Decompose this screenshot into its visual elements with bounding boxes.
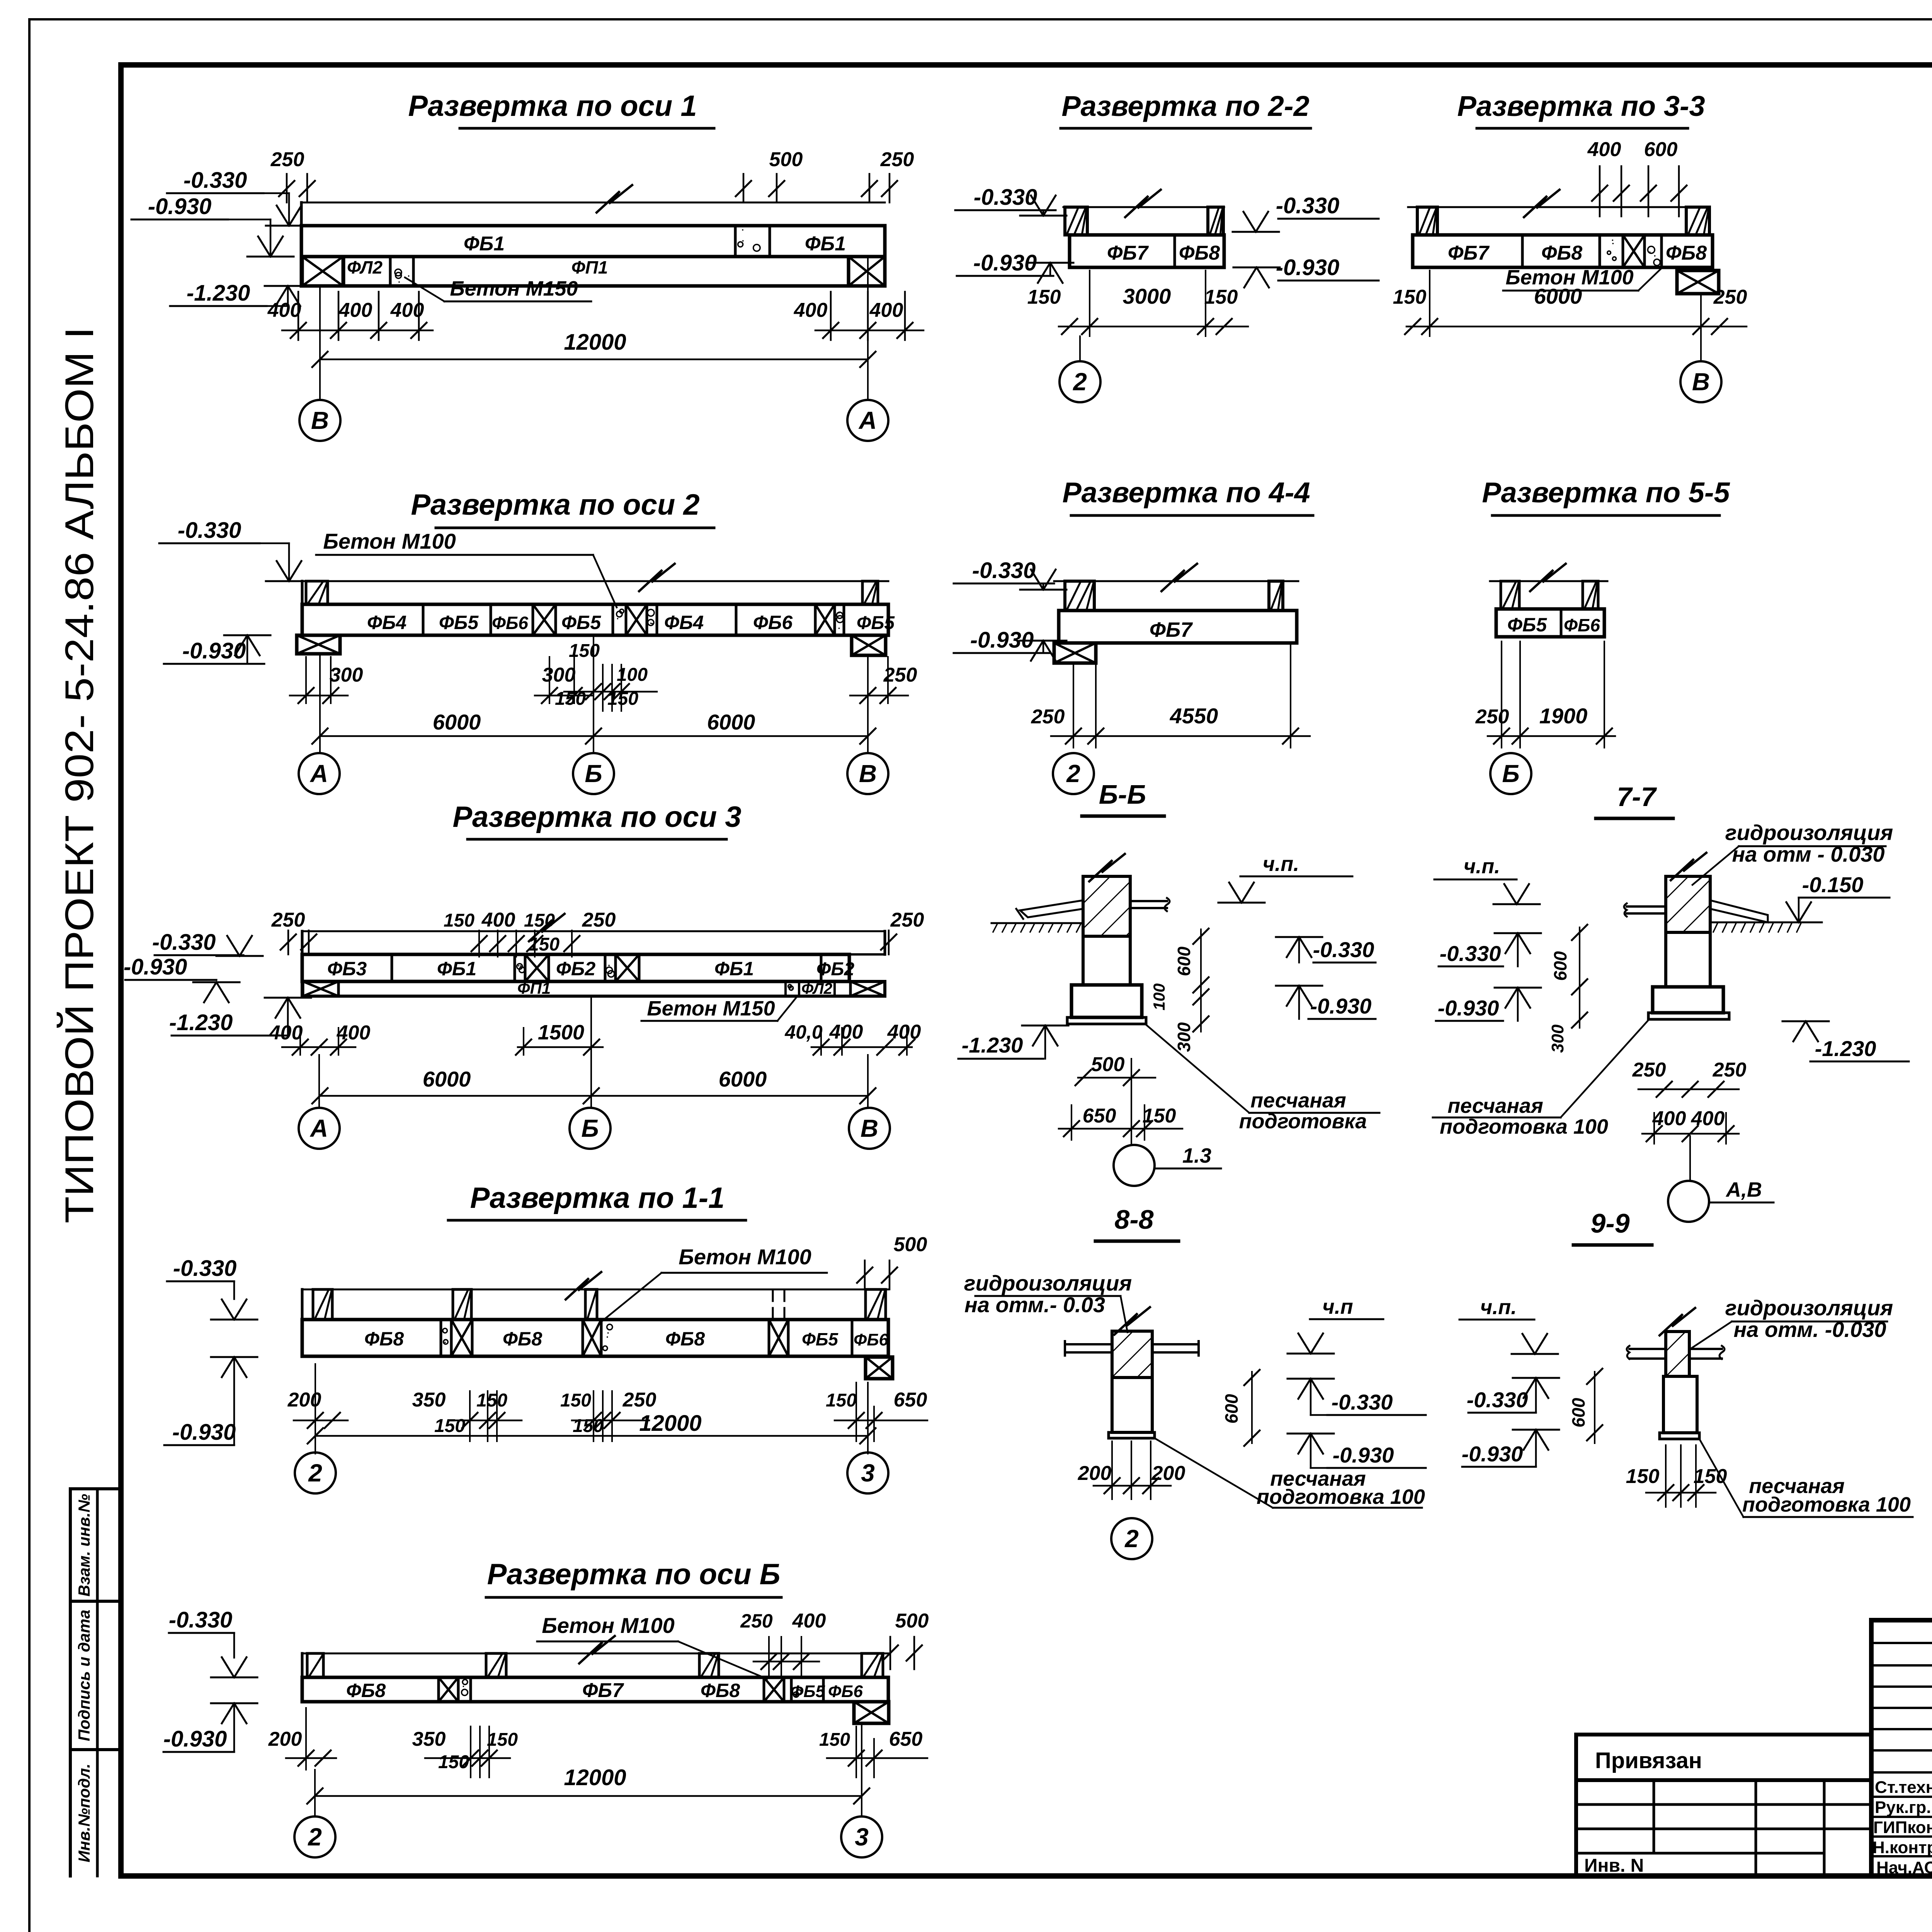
- svg-text:Развертка по 5-5: Развертка по 5-5: [1482, 476, 1730, 509]
- Б-Б wall below: [1083, 936, 1130, 985]
- Б-Б axis line and circle: [1114, 1140, 1221, 1186]
- svg-text:6000: 6000: [719, 1067, 767, 1091]
- axis circle 2 2-2: [1060, 361, 1100, 402]
- svg-text:ФБ1: ФБ1: [437, 958, 476, 980]
- svg-text:Б-Б: Б-Б: [1099, 779, 1146, 810]
- svg-text:500: 500: [1091, 1053, 1125, 1076]
- svg-text:ч.п: ч.п: [1322, 1295, 1353, 1318]
- crossbox FL left os1: [302, 257, 343, 286]
- svg-text:250: 250: [622, 1389, 656, 1411]
- svg-text:ФБ7: ФБ7: [582, 1679, 624, 1702]
- svg-text:гидроизоляция: гидроизоляция: [1725, 1296, 1893, 1320]
- svg-text:ФЛ2: ФЛ2: [347, 257, 383, 277]
- svg-text:6000: 6000: [433, 710, 481, 734]
- level -0.930 1-1: [164, 1357, 257, 1445]
- svg-text:400: 400: [269, 1022, 303, 1044]
- crossbox below right osБ: [854, 1702, 889, 1723]
- svg-text:250: 250: [1475, 706, 1509, 728]
- svg-text:400: 400: [1691, 1107, 1725, 1130]
- dim 1500 os3: [516, 1021, 603, 1055]
- svg-text:400: 400: [267, 299, 301, 321]
- axis circle Б os2: [573, 753, 614, 794]
- svg-text:подготовка 100: подготовка 100: [1440, 1115, 1608, 1138]
- svg-text:ФБ7: ФБ7: [1107, 242, 1149, 264]
- dims 400 600 above 3-3: [1587, 138, 1687, 216]
- svg-text:Развертка по оси 2: Развертка по оси 2: [411, 488, 699, 521]
- svg-text:300: 300: [1174, 1022, 1194, 1052]
- svg-text:Развертка по 1-1: Развертка по 1-1: [470, 1182, 725, 1214]
- svg-text:ФБ6: ФБ6: [753, 612, 793, 633]
- svg-text:-0.930: -0.930: [163, 1726, 227, 1752]
- svg-text:400: 400: [869, 299, 903, 321]
- hatch right 4-4: [1269, 581, 1283, 611]
- svg-text:40,0: 40,0: [784, 1021, 823, 1043]
- svg-text:ФБ5: ФБ5: [857, 613, 895, 633]
- dims 400 below left os1: [267, 292, 433, 340]
- svg-text:ФБ8: ФБ8: [503, 1328, 542, 1350]
- svg-text:-0.330: -0.330: [1313, 937, 1374, 962]
- level -0.930 4-4: [954, 628, 1066, 661]
- beam 5-5 wall top: [1490, 564, 1607, 591]
- svg-text:ФБ5: ФБ5: [561, 612, 601, 633]
- leader Бетон М100 3-3: [1503, 266, 1661, 291]
- 8-8 leader гидроизоляция: [964, 1271, 1132, 1332]
- 7-7 leader песчаная подготовка 100: [1433, 1020, 1648, 1138]
- svg-text:400: 400: [337, 1022, 371, 1044]
- vertical sheet title: [56, 327, 102, 1223]
- label FB8 3-3 mid: [1541, 242, 1582, 264]
- svg-text:ФБ1: ФБ1: [714, 958, 754, 980]
- axis circle 2 4-4: [1053, 753, 1094, 794]
- axis circle 2 1-1: [295, 1452, 336, 1493]
- svg-text:Бетон М100: Бетон М100: [679, 1245, 811, 1269]
- svg-text:Подпись и дата: Подпись и дата: [75, 1610, 93, 1741]
- svg-text:Н.контр.: Н.контр.: [1872, 1838, 1932, 1857]
- svg-text:150: 150: [1143, 1105, 1176, 1127]
- svg-text:150: 150: [826, 1390, 857, 1411]
- svg-text:300: 300: [330, 664, 363, 686]
- svg-text:-1.230: -1.230: [169, 1010, 233, 1035]
- Б-Б dim 650 150: [1059, 1105, 1182, 1140]
- svg-text:ФБ8: ФБ8: [364, 1328, 404, 1350]
- title Развертка по 4-4: [1062, 476, 1313, 515]
- dims 400 below left os3: [269, 1022, 371, 1055]
- svg-text:ФБ7: ФБ7: [1150, 618, 1193, 641]
- svg-text:песчаная: песчаная: [1447, 1094, 1543, 1117]
- svg-text:8-8: 8-8: [1114, 1204, 1153, 1235]
- svg-text:Бетон М100: Бетон М100: [323, 529, 456, 553]
- sidebar label Инв.№ подл.: [75, 1764, 93, 1862]
- leader Бетон М100 osБ: [537, 1613, 767, 1679]
- svg-text:гидроизоляция: гидроизоляция: [1725, 820, 1893, 845]
- 7-7 floor slab right: [1710, 900, 1768, 922]
- svg-text:Развертка по оси 3: Развертка по оси 3: [452, 801, 741, 833]
- svg-text:В: В: [311, 406, 329, 434]
- beam 4-4 wall top: [1054, 564, 1298, 591]
- svg-text:400: 400: [792, 1610, 826, 1632]
- axis circle В 3-3: [1680, 361, 1721, 402]
- dims below osБ right: [819, 1726, 927, 1777]
- 7-7 axis circle: [1668, 1136, 1774, 1222]
- svg-text:400: 400: [829, 1021, 863, 1043]
- 7-7 column: [1666, 932, 1710, 987]
- svg-text:-1.230: -1.230: [1815, 1036, 1876, 1061]
- svg-text:300: 300: [1548, 1024, 1567, 1053]
- svg-text:6000: 6000: [1534, 284, 1582, 308]
- dims 150 100 os2: [555, 641, 657, 711]
- title Развертка по оси 1: [408, 90, 714, 128]
- svg-text:150: 150: [438, 1752, 469, 1772]
- svg-text:В: В: [861, 1114, 878, 1142]
- axis circle В os3: [849, 1108, 890, 1149]
- dims 400 below right os1: [794, 292, 923, 340]
- level -0.930 os2: [164, 635, 270, 664]
- svg-text:2: 2: [1066, 760, 1080, 787]
- beam 3-3 FB row: [1413, 235, 1713, 267]
- stamp left table: [1576, 1780, 1871, 1876]
- dot block 3-3 b: [1648, 247, 1660, 266]
- svg-text:2: 2: [1124, 1525, 1139, 1553]
- beam os1 wall top: [301, 185, 885, 226]
- 7-7 dim 250 250: [1632, 1043, 1747, 1117]
- 9-9 left -0.330: [1467, 1378, 1559, 1413]
- hatch left 4-4: [1065, 581, 1094, 611]
- hatch left 5-5: [1501, 581, 1519, 609]
- dims below 2-2: [1027, 270, 1248, 336]
- svg-text:-0.330: -0.330: [152, 930, 216, 955]
- svg-text:ФБ8: ФБ8: [1541, 242, 1582, 264]
- svg-text:Развертка по 4-4: Развертка по 4-4: [1062, 476, 1310, 509]
- beam 2-2 wall top: [1063, 190, 1224, 217]
- svg-text:-0.330: -0.330: [184, 168, 247, 193]
- beam os2 wall top: [302, 564, 888, 604]
- beam osБ wall top: [302, 1636, 888, 1677]
- svg-text:150: 150: [819, 1730, 850, 1750]
- osБ labels FB: [346, 1679, 863, 1702]
- svg-text:3000: 3000: [1123, 284, 1171, 308]
- label FB7 2-2: [1107, 242, 1149, 264]
- svg-text:подготовка 100: подготовка 100: [1257, 1485, 1425, 1509]
- beam os1 FB row: [301, 226, 885, 257]
- leader Бетон М100 os2: [316, 529, 617, 607]
- os2 dotted blocks: [616, 609, 843, 629]
- dim 250 below os2 right: [850, 657, 917, 703]
- beam os2 FB row: [302, 604, 888, 635]
- svg-text:500: 500: [894, 1233, 927, 1256]
- svg-text:-0.330: -0.330: [972, 558, 1036, 583]
- Б-Б right level -0.330: [1276, 937, 1376, 963]
- title Развертка по оси Б: [486, 1558, 781, 1597]
- svg-text:250: 250: [880, 148, 914, 171]
- beam 1-1 wall top: [302, 1272, 888, 1320]
- section title 7-7: [1596, 782, 1673, 818]
- svg-text:ФП1: ФП1: [571, 257, 608, 277]
- svg-text:Развертка по оси 1: Развертка по оси 1: [408, 90, 697, 122]
- svg-text:А: А: [858, 406, 877, 434]
- svg-text:200: 200: [1078, 1462, 1112, 1485]
- svg-text:ФБ8: ФБ8: [665, 1328, 705, 1350]
- title Развертка по 5-5: [1482, 476, 1730, 515]
- dotted small os1: [395, 269, 410, 283]
- svg-text:150: 150: [1204, 286, 1238, 308]
- 8-8 right ч.п: [1287, 1295, 1383, 1354]
- svg-text:-0.150: -0.150: [1802, 872, 1864, 897]
- svg-text:12000: 12000: [564, 1765, 626, 1790]
- X block 3-3: [1623, 235, 1645, 267]
- arrow right -0.930 2-2: [1233, 267, 1280, 287]
- hatch pier os2 left: [306, 581, 328, 604]
- osБ X blocks: [439, 1677, 784, 1702]
- level -0.330 2-2 right: [1276, 193, 1379, 240]
- dims below osБ left: [268, 1708, 336, 1770]
- dashed pier 1-1: [773, 1291, 784, 1318]
- 8-8 wall hatched: [1112, 1307, 1152, 1378]
- beam 3-3 wall top: [1408, 190, 1709, 217]
- svg-text:150: 150: [1694, 1465, 1727, 1488]
- svg-text:Инв.№подл.: Инв.№подл.: [75, 1764, 93, 1862]
- 7-7 wall hatched: [1666, 853, 1710, 932]
- svg-text:-0.330: -0.330: [173, 1256, 236, 1281]
- level -0.330 os2: [159, 518, 312, 581]
- svg-text:ФП1: ФП1: [517, 979, 551, 997]
- svg-text:250: 250: [1031, 706, 1065, 728]
- sidebar cell strip: [70, 1489, 121, 1876]
- dim 250 top left os1: [270, 148, 315, 202]
- crossbox right os1: [849, 257, 885, 286]
- os2 labels FB: [367, 612, 895, 633]
- svg-text:150: 150: [560, 1390, 591, 1411]
- dims below 1-1 right: [826, 1383, 927, 1441]
- dot block 3-3 a: [1607, 240, 1616, 260]
- svg-text:400: 400: [1587, 138, 1621, 161]
- 7-7 left level -0.330: [1439, 933, 1541, 966]
- section title 8-8: [1095, 1204, 1179, 1241]
- svg-text:400: 400: [481, 909, 515, 931]
- 8-8 vertical dim 600: [1221, 1370, 1260, 1446]
- crossbox FL left os3: [303, 981, 338, 996]
- svg-text:Развертка по 2-2: Развертка по 2-2: [1061, 90, 1309, 122]
- 1-1 labels FB: [364, 1328, 889, 1350]
- os3 X blocks: [525, 954, 639, 981]
- 8-8 dim 200 200: [1078, 1441, 1185, 1499]
- axis circle А os2: [299, 753, 340, 794]
- label FB7 4-4: [1150, 618, 1193, 641]
- svg-text:250: 250: [271, 909, 305, 931]
- svg-text:А: А: [310, 760, 328, 787]
- svg-text:гидроизоляция: гидроизоляция: [964, 1271, 1132, 1295]
- os3 labels FB: [327, 958, 855, 980]
- section title 9-9: [1573, 1208, 1652, 1245]
- beam os3 FL row: [302, 981, 885, 996]
- svg-text:ФБ6: ФБ6: [828, 1682, 863, 1701]
- beam 1-1 FB row: [302, 1320, 888, 1356]
- axis circle В os2: [847, 753, 888, 794]
- dim 12000 os1: [312, 257, 876, 400]
- stamp signature table frame: [1871, 1620, 1932, 1876]
- title Развертка по 1-1: [448, 1182, 746, 1220]
- svg-text:Ст.техн.: Ст.техн.: [1875, 1778, 1932, 1797]
- svg-text:Б: Б: [581, 1114, 599, 1142]
- level -0.330 1-1: [167, 1256, 257, 1320]
- svg-text:ч.п.: ч.п.: [1464, 855, 1500, 878]
- svg-text:500: 500: [769, 148, 803, 171]
- axis line 3-3: [1700, 336, 1702, 359]
- hatch piers 1-1: [313, 1289, 886, 1320]
- svg-text:-0.930: -0.930: [1462, 1442, 1523, 1466]
- svg-text:600: 600: [1221, 1394, 1242, 1423]
- svg-text:ФБ8: ФБ8: [701, 1680, 740, 1701]
- label FB7 3-3: [1448, 242, 1490, 264]
- 9-9 pipes: [1627, 1346, 1725, 1359]
- svg-text:250: 250: [1713, 1059, 1747, 1081]
- 1-1 dotted blocks: [443, 1324, 612, 1350]
- sidebar label Подпись и дата: [75, 1610, 93, 1741]
- stamp pivyazan box: [1576, 1735, 1871, 1780]
- svg-text:ФБ2: ФБ2: [556, 958, 595, 980]
- label FP1: [571, 257, 608, 277]
- axis circle 3 1-1: [847, 1452, 888, 1493]
- 9-9 leader песчаная подготовка 100: [1699, 1439, 1913, 1517]
- svg-text:ч.п.: ч.п.: [1480, 1296, 1517, 1319]
- svg-text:3: 3: [861, 1459, 875, 1487]
- crossbox below right os2: [852, 635, 886, 655]
- dim 6000 6000 os3: [312, 954, 876, 1107]
- svg-text:Б: Б: [1502, 760, 1519, 787]
- 8-8 right -0.330: [1287, 1379, 1426, 1415]
- svg-text:150: 150: [1393, 286, 1427, 308]
- dim 12000 1-1: [308, 1383, 876, 1454]
- dims below 1-1 mid2: [560, 1389, 656, 1441]
- svg-text:ТИПОВОЙ ПРОЕКТ 902- 5-24.86: ТИПОВОЙ ПРОЕКТ 902- 5-24.86 АЛЬБОМ I: [56, 327, 102, 1223]
- dim 250 top right os3: [881, 909, 924, 954]
- axis circle 2 osБ: [294, 1816, 335, 1857]
- osБ dotted blocks: [462, 1680, 801, 1697]
- dim 500 top right 1-1: [857, 1233, 927, 1289]
- dims below osБ mid: [412, 1726, 518, 1777]
- 7-7 level -0.150: [1776, 872, 1889, 922]
- 9-9 leader гидроизоляция: [1691, 1296, 1893, 1349]
- crossbox below left os2: [297, 635, 340, 654]
- level -0.930 osБ: [163, 1703, 257, 1752]
- os2 X blocks: [533, 604, 835, 635]
- svg-text:150: 150: [444, 910, 474, 931]
- svg-text:250: 250: [270, 148, 304, 171]
- label FB1 left: [464, 233, 505, 255]
- svg-text:-1.230: -1.230: [962, 1033, 1023, 1057]
- svg-text:600: 600: [1568, 1398, 1588, 1427]
- svg-text:А: А: [310, 1114, 328, 1142]
- 9-9 dim 150 150: [1626, 1445, 1727, 1507]
- svg-text:Привязан: Привязан: [1595, 1748, 1702, 1773]
- svg-text:-0.330: -0.330: [1276, 193, 1339, 218]
- Б-Б floor slab left: [1016, 900, 1083, 919]
- svg-text:-0.930: -0.930: [182, 638, 246, 663]
- leader Бетон М150 os1: [405, 277, 591, 301]
- svg-text:-0.930: -0.930: [1333, 1443, 1394, 1467]
- dims below 1-1 left: [287, 1364, 348, 1430]
- svg-text:-0.330: -0.330: [169, 1607, 232, 1633]
- 7-7 dim 400 400: [1642, 1107, 1739, 1144]
- title Развертка по 3-3: [1457, 90, 1705, 128]
- Б-Б vertical dim 300: [1174, 989, 1209, 1052]
- svg-text:2: 2: [308, 1823, 322, 1851]
- svg-text:350: 350: [412, 1389, 446, 1411]
- svg-text:7-7: 7-7: [1617, 782, 1657, 812]
- svg-text:600: 600: [1644, 138, 1678, 161]
- svg-text:400: 400: [338, 299, 372, 321]
- 9-9 base plate: [1660, 1433, 1699, 1439]
- svg-text:-0.330: -0.330: [1332, 1390, 1393, 1414]
- svg-text:-0.930: -0.930: [1276, 255, 1339, 280]
- svg-text:100: 100: [1150, 983, 1168, 1010]
- svg-text:350: 350: [412, 1728, 446, 1750]
- Б-Б right level -0.930: [1276, 986, 1376, 1019]
- arrow right -0.330 2-2: [1233, 212, 1279, 232]
- level -1.230 os1: [170, 281, 311, 306]
- Б-Б level -1.230: [958, 1026, 1068, 1059]
- svg-text:1500: 1500: [538, 1021, 584, 1044]
- svg-text:-0.930: -0.930: [1310, 994, 1372, 1018]
- dim 250 top left os3: [271, 909, 316, 954]
- svg-text:650: 650: [1083, 1105, 1116, 1127]
- 7-7 footing: [1648, 987, 1729, 1019]
- 9-9 left -0.930: [1462, 1430, 1559, 1467]
- beam 4-4 FB row: [1059, 611, 1297, 643]
- svg-text:А,В: А,В: [1725, 1178, 1762, 1201]
- 1-1 X blocks: [451, 1320, 788, 1356]
- 8-8 pipes: [1065, 1341, 1199, 1355]
- crossbox below right 1-1: [866, 1357, 893, 1379]
- svg-text:6000: 6000: [707, 710, 755, 734]
- crossbox right os3: [850, 981, 885, 996]
- svg-text:ФБ5: ФБ5: [439, 612, 479, 633]
- beam osБ FB row: [302, 1677, 888, 1702]
- svg-text:ФБ8: ФБ8: [1666, 242, 1707, 264]
- svg-text:400: 400: [1652, 1107, 1686, 1130]
- Б-Б leader песчаная подготовка: [1146, 1025, 1379, 1133]
- svg-text:250: 250: [890, 909, 924, 931]
- svg-text:ФБ4: ФБ4: [367, 612, 406, 633]
- svg-text:Бетон М150: Бетон М150: [450, 277, 578, 300]
- label FL2: [347, 257, 383, 277]
- 8-8 right -0.930: [1287, 1434, 1426, 1468]
- label FB8 3-3 right: [1666, 242, 1707, 264]
- axis circle Б os3: [570, 1108, 611, 1149]
- svg-text:Б: Б: [585, 760, 602, 787]
- svg-text:150: 150: [434, 1416, 465, 1436]
- title Развертка по 2-2: [1061, 90, 1311, 128]
- svg-text:600: 600: [1550, 951, 1570, 981]
- svg-text:2: 2: [308, 1459, 322, 1487]
- sidebar label Взам.инв.№: [75, 1494, 93, 1597]
- dims below 3-3: [1393, 270, 1747, 336]
- 8-8 axis circle 2: [1111, 1518, 1152, 1559]
- svg-text:250: 250: [582, 909, 616, 931]
- 9-9 left ч.п.: [1459, 1296, 1558, 1354]
- dim 6000 6000 os2: [312, 635, 876, 753]
- svg-text:200: 200: [287, 1389, 321, 1411]
- 7-7 ground right: [1710, 922, 1807, 932]
- svg-text:4550: 4550: [1170, 704, 1218, 728]
- svg-text:Развертка по 3-3: Развертка по 3-3: [1457, 90, 1705, 122]
- svg-text:1.3: 1.3: [1182, 1144, 1211, 1167]
- Б-Б vertical dim 600: [1174, 929, 1209, 993]
- dim 12000 osБ: [307, 1723, 869, 1816]
- level -0.930 os3: [124, 954, 240, 1002]
- Б-Б wall hatched: [1083, 854, 1130, 936]
- beam os3 FB row: [302, 954, 849, 981]
- 7-7 pipes left: [1624, 903, 1666, 917]
